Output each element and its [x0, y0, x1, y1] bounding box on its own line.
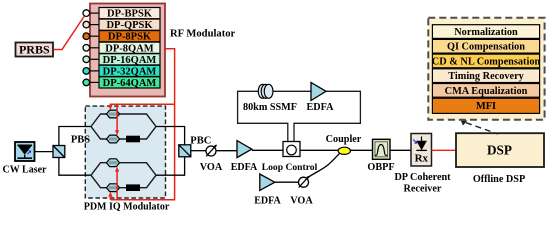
CW Laser: [15, 142, 35, 161]
selector circle DP-32QAM: [83, 68, 99, 75]
format box DP-32QAM: [99, 65, 160, 77]
phase modulator lower arm (bottom MZ): [107, 184, 120, 192]
recirculating loop fiber path: [238, 91, 361, 141]
svg-text:DP Coherent: DP Coherent: [394, 172, 451, 183]
phase shifter block (top MZ): [126, 136, 140, 143]
svg-text:PBS: PBS: [71, 134, 90, 145]
svg-text:Coupler: Coupler: [326, 134, 362, 145]
svg-text:PBC: PBC: [190, 135, 211, 146]
wire RF drive branch B (red): [116, 104, 118, 132]
phase modulator upper arm (top MZ): [107, 110, 120, 118]
svg-text:EDFA: EDFA: [231, 162, 258, 173]
EDFA amplifier (loop): [311, 83, 326, 101]
DP coherent receiver Rx: [411, 134, 432, 167]
svg-text:CD & NL Compensation: CD & NL Compensation: [432, 56, 541, 67]
wire coupler to OBPF: [350, 149, 373, 151]
format box DP-8QAM: [99, 42, 160, 54]
svg-text:DP-64QAM: DP-64QAM: [103, 78, 157, 89]
wire loop control to coupler: [300, 149, 338, 151]
upper IQ modulator MZ waveguide: [91, 114, 156, 139]
selector circle DP-8QAM: [83, 45, 99, 52]
svg-text:DP-QPSK: DP-QPSK: [106, 20, 153, 31]
wire PRBS to DP-BPSK selector (red): [54, 17, 85, 50]
svg-text:Rx: Rx: [415, 152, 429, 164]
svg-text:Loop Control: Loop Control: [262, 162, 318, 173]
wire laser to PBS: [35, 151, 54, 153]
phase shifter block (bottom MZ): [126, 184, 140, 191]
arrow into lower-arm modulator (bottom MZ): [108, 192, 112, 197]
svg-text:RF Modulator: RF Modulator: [170, 29, 236, 40]
RF Modulator container: [90, 4, 165, 97]
svg-text:PRBS: PRBS: [19, 43, 50, 57]
wire PBS to lower IQ modulator: [59, 158, 91, 176]
selector circle DP-BPSK: [83, 10, 99, 17]
svg-text:OBPF: OBPF: [367, 162, 394, 173]
arrow into lower-arm modulator (top MZ): [115, 130, 119, 135]
svg-text:Normalization: Normalization: [454, 27, 518, 38]
PDM IQ Modulator box: [85, 106, 165, 198]
PBC polarization beam combiner: [179, 145, 191, 157]
wire VOA to coupler (curved): [308, 154, 340, 178]
format box DP-16QAM: [99, 54, 160, 66]
format box DP-64QAM: [99, 77, 160, 89]
phase modulator upper arm (bottom MZ): [107, 159, 120, 167]
VOA attenuator symbol: [206, 145, 217, 157]
lower IQ modulator MZ waveguide: [91, 163, 156, 188]
svg-text:PDM IQ Modulator: PDM IQ Modulator: [84, 202, 170, 213]
svg-text:DP-8PSK: DP-8PSK: [108, 32, 152, 43]
selector circle DP-8PSK: [83, 33, 99, 40]
svg-text:EDFA: EDFA: [254, 195, 281, 206]
svg-text:DP-8QAM: DP-8QAM: [105, 43, 153, 54]
svg-text:80km SSMF: 80km SSMF: [243, 102, 297, 113]
svg-text:CMA Equalization: CMA Equalization: [445, 86, 528, 97]
wire RF drive to upper IQ modulator (red): [110, 104, 174, 107]
wire PBS to upper IQ modulator: [59, 127, 91, 146]
svg-text:DSP: DSP: [487, 142, 512, 157]
phase modulator lower arm (top MZ): [107, 135, 120, 143]
wire PBC to VOA: [191, 150, 206, 152]
DSP box: [456, 133, 544, 167]
svg-text:Receiver: Receiver: [404, 184, 442, 195]
svg-text:DP-16QAM: DP-16QAM: [103, 55, 157, 66]
wire EDFA to loop control: [252, 149, 283, 151]
EDFA amplifier (ASE branch): [260, 174, 275, 190]
block QI Compensation: [432, 39, 539, 53]
wire ASE EDFA to VOA: [275, 181, 299, 183]
Loop Control switch: [283, 142, 300, 157]
wire VOA to EDFA: [216, 150, 237, 152]
PBS polarization beam splitter: [53, 146, 65, 158]
svg-text:Timing Recovery: Timing Recovery: [448, 71, 524, 82]
wire receiver to DSP (electrical, red): [432, 149, 457, 151]
block Timing Recovery: [432, 69, 539, 83]
block Normalization: [432, 25, 539, 39]
selector circle DP-QPSK: [83, 21, 99, 28]
format box DP-QPSK: [99, 19, 160, 31]
svg-text:CW Laser: CW Laser: [3, 164, 48, 175]
VOA attenuator (ASE branch): [299, 176, 310, 188]
svg-text:VOA: VOA: [200, 162, 223, 173]
svg-text:Offline DSP: Offline DSP: [473, 174, 525, 185]
selector circle DP-16QAM: [83, 56, 99, 63]
svg-text:QI Compensation: QI Compensation: [447, 42, 525, 53]
PRBS box: [16, 43, 54, 57]
format box DP-8PSK: [99, 31, 160, 43]
EDFA amplifier: [237, 141, 252, 158]
block CMA Equalization: [432, 84, 539, 98]
wire RF drive bottom branch B (red): [116, 171, 118, 200]
selector circle DP-64QAM: [83, 79, 99, 86]
fiber spool 80km SSMF: [258, 84, 273, 98]
arrow into upper-arm modulator (bottom MZ): [115, 167, 119, 172]
svg-text:VOA: VOA: [290, 195, 313, 206]
arrow into upper-arm modulator (top MZ): [108, 105, 112, 110]
wire RF drive bottom feed A (red): [109, 195, 111, 200]
wire lower MZ output to PBC: [156, 157, 185, 175]
svg-text:DP-BPSK: DP-BPSK: [107, 9, 153, 20]
block MFI: [432, 98, 539, 113]
offline DSP stack container: [428, 18, 544, 120]
wire upper MZ output to PBC: [156, 127, 185, 145]
block CD & NL Compensation: [432, 54, 541, 68]
svg-text:DP-32QAM: DP-32QAM: [103, 66, 157, 77]
OBPF optical bandpass filter: [373, 139, 391, 159]
format box DP-BPSK: [99, 8, 160, 20]
wire OBPF to receiver: [390, 149, 411, 151]
coupler: [338, 147, 350, 154]
callout dashed arrow DSP to offline stack: [466, 123, 498, 134]
wire RF modulator output trunk (red): [110, 49, 174, 200]
svg-text:MFI: MFI: [476, 101, 496, 112]
svg-text:EDFA: EDFA: [307, 102, 335, 113]
